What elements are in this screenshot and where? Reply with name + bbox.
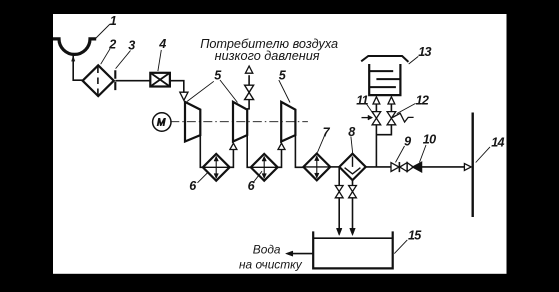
filter F1 (item 2) diamond xyxy=(83,65,114,96)
svg-text:9: 9 xyxy=(404,135,411,149)
leader line 2 xyxy=(101,49,110,64)
network line 14 xyxy=(472,113,474,218)
intake arrow (solid, up) xyxy=(71,56,75,61)
tank 13 body xyxy=(369,64,400,95)
wire separator to valves 9/10 xyxy=(366,166,391,168)
svg-text:13: 13 xyxy=(418,45,431,59)
drain 2 from separator 8 xyxy=(352,180,354,185)
leader line 4 xyxy=(158,50,161,71)
svg-text:M: M xyxy=(157,117,166,128)
svg-text:низкого давления: низкого давления xyxy=(215,49,320,63)
spring zigzag at valve 12 xyxy=(392,113,413,122)
leader line 5b xyxy=(279,80,290,103)
motor M xyxy=(153,113,171,131)
svg-text:Вода: Вода xyxy=(253,243,281,257)
orifice bar (item 3) xyxy=(114,70,116,90)
leader line 13 xyxy=(409,56,419,64)
drain valve 2 (bowtie vertical) xyxy=(349,186,357,198)
svg-text:8: 8 xyxy=(348,125,355,139)
leader line 1 xyxy=(96,24,111,39)
separator 8 diamond xyxy=(339,154,365,180)
tank 13 roof xyxy=(361,56,408,62)
compressor stage 3 xyxy=(281,102,295,142)
cooler 6a diamond xyxy=(203,154,230,181)
wire cooler 6a to stage 2 inlet xyxy=(230,149,234,167)
svg-text:15: 15 xyxy=(408,229,422,243)
wire filter to valve 4 xyxy=(115,80,150,82)
outlet arrow to LP consumers (hollow, up) xyxy=(245,66,252,73)
svg-text:6: 6 xyxy=(189,179,197,193)
leader line 9 xyxy=(396,146,405,162)
inlet arrow stage 1 (hollow, down) xyxy=(180,92,188,100)
leader line 3 xyxy=(116,51,131,69)
leader line 10 xyxy=(420,145,427,162)
inlet arrow stage 3 (hollow, up) xyxy=(278,143,285,149)
check valve 10 (hollow + filled) xyxy=(407,162,422,172)
intake bell 1 xyxy=(53,39,96,54)
valve 4 (rect with X) xyxy=(150,73,170,87)
tank 13 baffles xyxy=(369,71,400,87)
white drawing panel xyxy=(53,14,507,274)
wire stage1 outlet down xyxy=(200,135,203,167)
water tank 15 xyxy=(313,231,393,268)
wire valve 4 to stage 1 inlet xyxy=(170,81,184,93)
arrow into tank (hollow, up) left xyxy=(373,97,380,104)
leader line 14 xyxy=(476,147,490,163)
svg-text:2: 2 xyxy=(108,38,116,52)
svg-text:1: 1 xyxy=(110,14,117,28)
svg-text:5: 5 xyxy=(214,68,222,82)
drain arrow 2 (solid, down) xyxy=(350,228,356,235)
leader line 7 xyxy=(317,136,324,152)
leader lines 5 xyxy=(187,80,238,103)
svg-text:3: 3 xyxy=(128,38,135,52)
drain 1 from main pipe xyxy=(338,167,340,185)
leader line 12 xyxy=(397,103,416,113)
svg-text:на очистку: на очистку xyxy=(239,257,303,271)
svg-text:11: 11 xyxy=(356,93,368,107)
svg-text:12: 12 xyxy=(416,94,429,108)
svg-text:10: 10 xyxy=(423,132,436,146)
drain arrow 1 (solid, down) xyxy=(336,228,342,235)
drain valve 1 (bowtie vertical) xyxy=(335,186,343,198)
valve 11 (bowtie vertical) xyxy=(372,112,381,125)
wire stage3 outlet down xyxy=(295,135,303,167)
wire valve 12 to tank bottom with arrow xyxy=(390,105,392,112)
wire stage2 outlet down xyxy=(247,135,251,167)
wire to network 14 xyxy=(422,166,465,168)
svg-text:4: 4 xyxy=(158,37,166,51)
riser stage2 to LP consumers xyxy=(247,100,249,109)
svg-text:6: 6 xyxy=(248,179,256,193)
cooler 6b diamond xyxy=(251,154,278,181)
valve 9 (hollow triangles with stem) xyxy=(391,162,407,172)
leader line 6b xyxy=(253,171,262,183)
leader line 8 xyxy=(351,136,353,152)
water outlet arrow (solid, left) xyxy=(290,253,314,255)
valve 12 (bowtie vertical) xyxy=(387,112,396,125)
arrow into tank (hollow, up) right xyxy=(388,97,395,104)
svg-text:14: 14 xyxy=(491,135,504,149)
shaft centerline xyxy=(170,121,308,123)
leader line 6a xyxy=(198,173,208,183)
leader line 15 xyxy=(394,240,407,254)
compressor stage 2 xyxy=(233,102,247,142)
cooler 7 diamond xyxy=(303,154,330,181)
wire cooler7 to separator 8 xyxy=(330,166,339,168)
svg-text:7: 7 xyxy=(323,125,331,139)
wire cooler 6b to stage 3 inlet xyxy=(278,149,282,167)
tank 15 water line xyxy=(313,237,393,239)
wire bell to filter xyxy=(73,55,82,80)
svg-text:5: 5 xyxy=(279,68,287,82)
riser to tank 13 xyxy=(375,125,377,167)
leader line 11 xyxy=(366,103,374,114)
control arrow into valve 11 (solid, right) xyxy=(362,117,370,119)
inlet arrow stage 2 (hollow, up) xyxy=(230,143,237,149)
wire valve 11 to tank bottom with arrow xyxy=(375,105,377,112)
arrow into network (hollow, right) xyxy=(464,164,471,171)
valve on riser (bowtie vertical) xyxy=(245,85,254,99)
compressor stage 1 (item 5) trapezoid xyxy=(185,102,200,142)
